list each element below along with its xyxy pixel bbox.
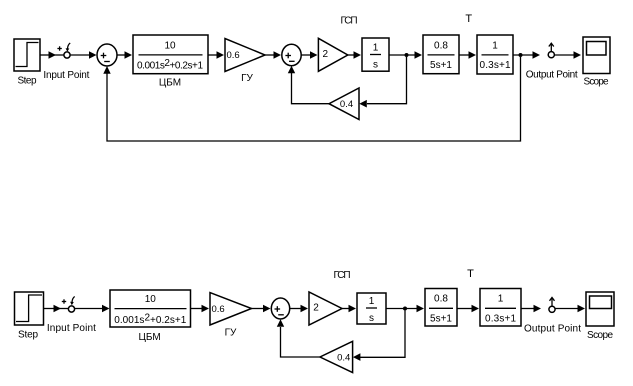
svg-text:5s+1: 5s+1: [430, 314, 452, 325]
svg-text:0.3s+1: 0.3s+1: [485, 314, 516, 325]
svg-text:ГСП: ГСП: [334, 270, 351, 281]
svg-text:5s+1: 5s+1: [430, 60, 452, 71]
svg-text:Step: Step: [18, 330, 38, 341]
svg-text:ЦБМ: ЦБМ: [159, 77, 181, 88]
svg-text:ГУ: ГУ: [225, 327, 237, 338]
svg-text:1: 1: [373, 43, 379, 54]
svg-text:0.6: 0.6: [227, 50, 240, 61]
svg-text:s: s: [369, 313, 374, 324]
svg-text:Output Point: Output Point: [526, 70, 578, 81]
svg-text:Input Point: Input Point: [47, 323, 96, 334]
svg-text:T: T: [465, 13, 472, 25]
svg-text:10: 10: [164, 40, 176, 51]
svg-text:0.8: 0.8: [434, 40, 448, 51]
svg-text:ГУ: ГУ: [241, 73, 253, 84]
svg-text:Input Point: Input Point: [43, 70, 89, 81]
svg-text:0.3s+1: 0.3s+1: [480, 60, 511, 71]
svg-text:1: 1: [369, 296, 375, 307]
svg-text:0.001s2+0.2s+1: 0.001s2+0.2s+1: [137, 58, 203, 72]
svg-text:0.4: 0.4: [337, 352, 350, 363]
svg-text:Scope: Scope: [584, 76, 609, 87]
svg-text:10: 10: [145, 294, 157, 305]
svg-text:ЦБМ: ЦБМ: [138, 332, 160, 343]
svg-text:0.6: 0.6: [212, 304, 225, 315]
svg-text:2: 2: [323, 49, 329, 60]
svg-text:0.001s2+0.2s+1: 0.001s2+0.2s+1: [114, 312, 186, 326]
svg-text:Scope: Scope: [587, 330, 613, 341]
svg-text:Step: Step: [18, 76, 37, 87]
svg-text:ГСП: ГСП: [341, 15, 358, 26]
svg-text:T: T: [467, 268, 474, 280]
svg-text:2: 2: [313, 303, 319, 314]
svg-text:1: 1: [498, 294, 504, 305]
svg-text:1: 1: [492, 40, 498, 51]
svg-text:0.4: 0.4: [340, 99, 353, 110]
svg-text:0.8: 0.8: [434, 294, 448, 305]
svg-text:Output Point: Output Point: [524, 324, 581, 335]
svg-text:s: s: [373, 60, 378, 71]
